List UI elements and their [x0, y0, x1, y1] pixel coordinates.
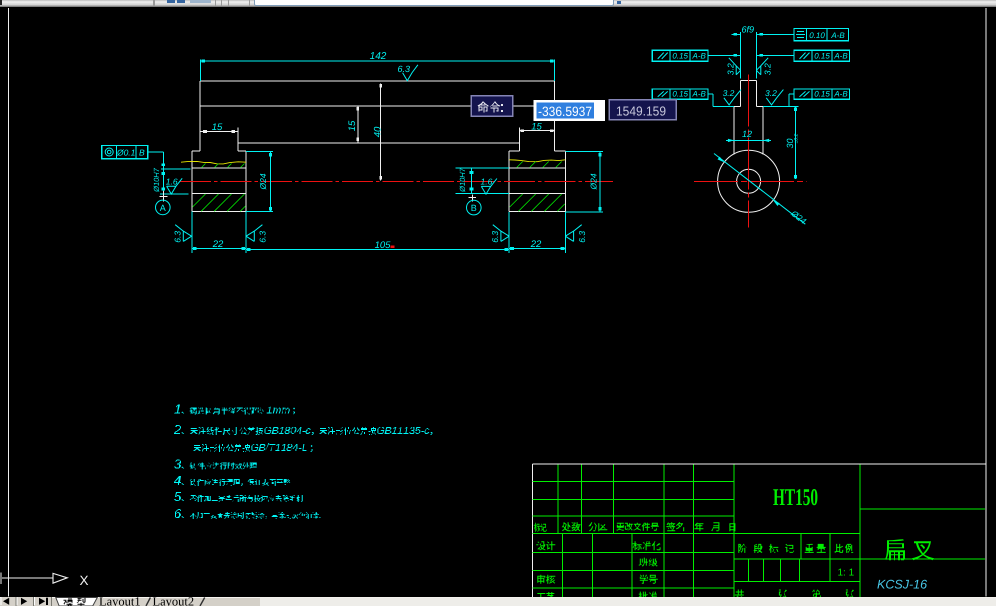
svg-text:1: 1: 1: 1 — [837, 568, 854, 579]
svg-text:HT150: HT150 — [773, 485, 818, 511]
svg-text:0.10: 0.10 — [809, 31, 825, 40]
svg-text:KCSJ-16: KCSJ-16 — [877, 578, 927, 592]
svg-text:0.15: 0.15 — [814, 90, 830, 99]
svg-text:0.15: 0.15 — [672, 90, 688, 99]
svg-text:A-B: A-B — [692, 90, 707, 99]
svg-text:Layout1: Layout1 — [99, 597, 141, 606]
svg-text:±0.2: ±0.2 — [794, 133, 800, 143]
svg-text:12: 12 — [742, 129, 752, 139]
svg-text:-336.5937: -336.5937 — [538, 104, 592, 119]
svg-text:3.2: 3.2 — [762, 63, 772, 75]
svg-text:B: B — [471, 203, 477, 213]
svg-text:0.15: 0.15 — [672, 52, 688, 61]
svg-text:A: A — [160, 203, 166, 213]
svg-text:A-B: A-B — [833, 52, 848, 61]
svg-text:Layout2: Layout2 — [153, 597, 195, 606]
svg-text:6.3: 6.3 — [172, 231, 182, 243]
svg-text:6.3: 6.3 — [258, 231, 268, 243]
svg-text:6.3: 6.3 — [490, 231, 500, 243]
svg-text:A-B: A-B — [830, 31, 845, 40]
svg-text:3.2: 3.2 — [723, 88, 735, 98]
svg-text:Ø0.1: Ø0.1 — [116, 148, 136, 158]
svg-text:142: 142 — [370, 51, 387, 62]
svg-text:6.3: 6.3 — [398, 64, 411, 74]
svg-text:3.2: 3.2 — [765, 88, 777, 98]
svg-text:15: 15 — [212, 122, 223, 133]
svg-text:X: X — [79, 573, 88, 588]
svg-text:Ø24: Ø24 — [588, 173, 598, 190]
svg-text:Ø10H7: Ø10H7 — [152, 167, 161, 193]
svg-text:Ø24: Ø24 — [789, 208, 809, 227]
svg-text:6f9: 6f9 — [741, 24, 754, 34]
svg-text:1549.159: 1549.159 — [616, 103, 666, 118]
svg-text:22: 22 — [530, 239, 542, 250]
svg-text:105: 105 — [375, 240, 392, 251]
svg-text:A-B: A-B — [833, 90, 848, 99]
svg-text:Ø24: Ø24 — [258, 173, 268, 190]
svg-text:1.6: 1.6 — [166, 176, 178, 186]
svg-text:3.2: 3.2 — [725, 63, 735, 75]
svg-text:40: 40 — [372, 126, 383, 137]
svg-text:15: 15 — [347, 120, 358, 131]
svg-text:B: B — [139, 148, 145, 158]
svg-text:1.6: 1.6 — [481, 176, 493, 186]
svg-text:15: 15 — [531, 122, 542, 133]
svg-text:0.15: 0.15 — [814, 52, 830, 61]
svg-text:A-B: A-B — [692, 52, 707, 61]
svg-text:6.3: 6.3 — [577, 231, 587, 243]
svg-text:22: 22 — [212, 239, 224, 250]
svg-text:Ø10H7: Ø10H7 — [458, 167, 467, 193]
